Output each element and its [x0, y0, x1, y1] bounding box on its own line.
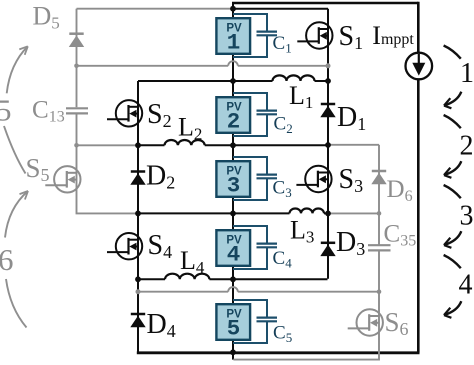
diode D5 (gray) [69, 34, 84, 47]
wire: node B3 line with inductor L3 [138, 212, 290, 214]
capacitor C1 branch [233, 14, 267, 57]
wire: top rail (PV1+ to current source) [232, 2, 418, 5]
PV module 3 [216, 161, 250, 198]
svg-text:3: 3 [227, 172, 241, 198]
wire: node B2 line with inductor L2 [138, 144, 165, 146]
capacitor C35 plates (gray) [368, 245, 391, 250]
capacitor C5 branch [233, 300, 267, 343]
wire: S2/D2/S4/D4 column [137, 81, 139, 353]
node: PV1+ junction [230, 6, 236, 12]
capacitor C3 plates [257, 175, 278, 179]
inductor L4 [165, 274, 209, 280]
node B4 junction [230, 276, 236, 282]
wire: SW4 link to C35 bottom / S6 drain, with hop [138, 291, 228, 293]
capacitor C4 plates [257, 244, 278, 248]
arc from 6 down [6, 279, 27, 328]
diode D3 [320, 243, 335, 256]
mosfet S1 [297, 22, 332, 48]
mosfet S2 [107, 100, 142, 126]
wire: node B4 line with inductor L4 [138, 278, 165, 280]
node SW4 gray tap junction [136, 289, 141, 294]
svg-text:4: 4 [459, 270, 473, 301]
node SW1 gray junction [326, 63, 331, 68]
svg-text:6: 6 [0, 242, 14, 277]
capacitor C1 plates [257, 32, 278, 36]
inductor L2 [165, 140, 205, 145]
capacitor C2 branch [233, 93, 267, 136]
arrow arc above 2 [444, 115, 461, 128]
mosfet S3 [296, 166, 331, 192]
wire: node B1 line with inductor L1 [138, 80, 273, 82]
capacitor C13 plates (gray) [66, 108, 88, 113]
node C13-S5 gray junction [74, 143, 79, 148]
PV module 2 [216, 97, 250, 134]
node D5-C13 gray junction [74, 64, 79, 69]
node C35-S6 gray junction [377, 289, 382, 294]
capacitor C5 plates [257, 318, 278, 322]
svg-text:5: 5 [0, 93, 12, 128]
PV module 5 [216, 304, 250, 341]
wire: right rail [417, 2, 420, 353]
node B1 junction [230, 78, 236, 84]
arrow below 3 [444, 231, 461, 248]
svg-text:2: 2 [227, 108, 241, 134]
node SW2 junction [135, 142, 141, 148]
node B2-D1 junction [325, 142, 331, 148]
arrow below 1 [444, 92, 461, 109]
arc from 5 down to S5 [4, 126, 26, 174]
hop [228, 61, 238, 66]
wire: S1/D1/S3/D3 column [327, 9, 329, 279]
wire: node B2 to D6 cathode (gray) [328, 144, 379, 146]
capacitor C2 plates [257, 111, 278, 115]
wire: right gray column (D6 / C35 / S6) [378, 145, 380, 245]
mosfet S6 (gray) [348, 309, 383, 335]
inductor L1 [273, 75, 315, 81]
capacitor C4 branch [233, 226, 267, 269]
arrow arc above 4 [444, 255, 461, 268]
node D6-C35 gray junction [377, 211, 382, 216]
node SW4 junction [135, 276, 141, 282]
wire: bottom rail [137, 351, 420, 354]
diode D2 [130, 172, 145, 185]
wire: left gray column (D5 / C13 / S5) [76, 9, 78, 108]
svg-text:5: 5 [227, 315, 241, 341]
wire: PV string column [232, 2, 234, 360]
PV module 1 [216, 18, 250, 55]
wire: gray top feed (D5 cathode to PV1+) [77, 8, 234, 10]
node B3-S4 junction [135, 211, 141, 217]
current source Imppt [406, 53, 433, 80]
capacitor C3 branch [233, 157, 267, 200]
node SW1-L1 junction [325, 78, 331, 84]
inductor L3 [290, 208, 325, 213]
hop [228, 287, 238, 292]
mosfet S5 (gray) [45, 166, 80, 192]
diode D4 [130, 314, 145, 327]
arrow arc above 3 [444, 185, 461, 198]
node B3 junction [230, 211, 236, 217]
wire: SW1 link (C13 top to S1 source) with hop over PV string [77, 65, 229, 67]
svg-text:4: 4 [227, 241, 241, 267]
wire: top feed to S1 drain [233, 8, 328, 10]
svg-text:2: 2 [460, 130, 474, 161]
svg-text:1: 1 [227, 29, 241, 55]
wire: SW3 link to D6 anode / C35 top [328, 212, 379, 214]
node SW3 junction [325, 211, 331, 217]
node B2 junction [230, 142, 236, 148]
arrow below 4 [444, 301, 461, 318]
diode D1 [320, 104, 335, 117]
svg-text:3: 3 [460, 201, 474, 232]
arrow below 2 [444, 161, 461, 178]
svg-text:1: 1 [460, 58, 474, 89]
wire: SW2 link (C13 bottom to S2 source) [77, 144, 139, 146]
arrow from 5 up toward D5 [7, 46, 28, 93]
arrow arc above 1 [444, 46, 461, 59]
mosfet S4 [107, 233, 142, 259]
arrow from 6 up toward S4 [5, 191, 28, 238]
diode D6 (gray) [371, 171, 386, 184]
node PV5- junction [230, 349, 236, 355]
PV module 4 [216, 230, 250, 267]
